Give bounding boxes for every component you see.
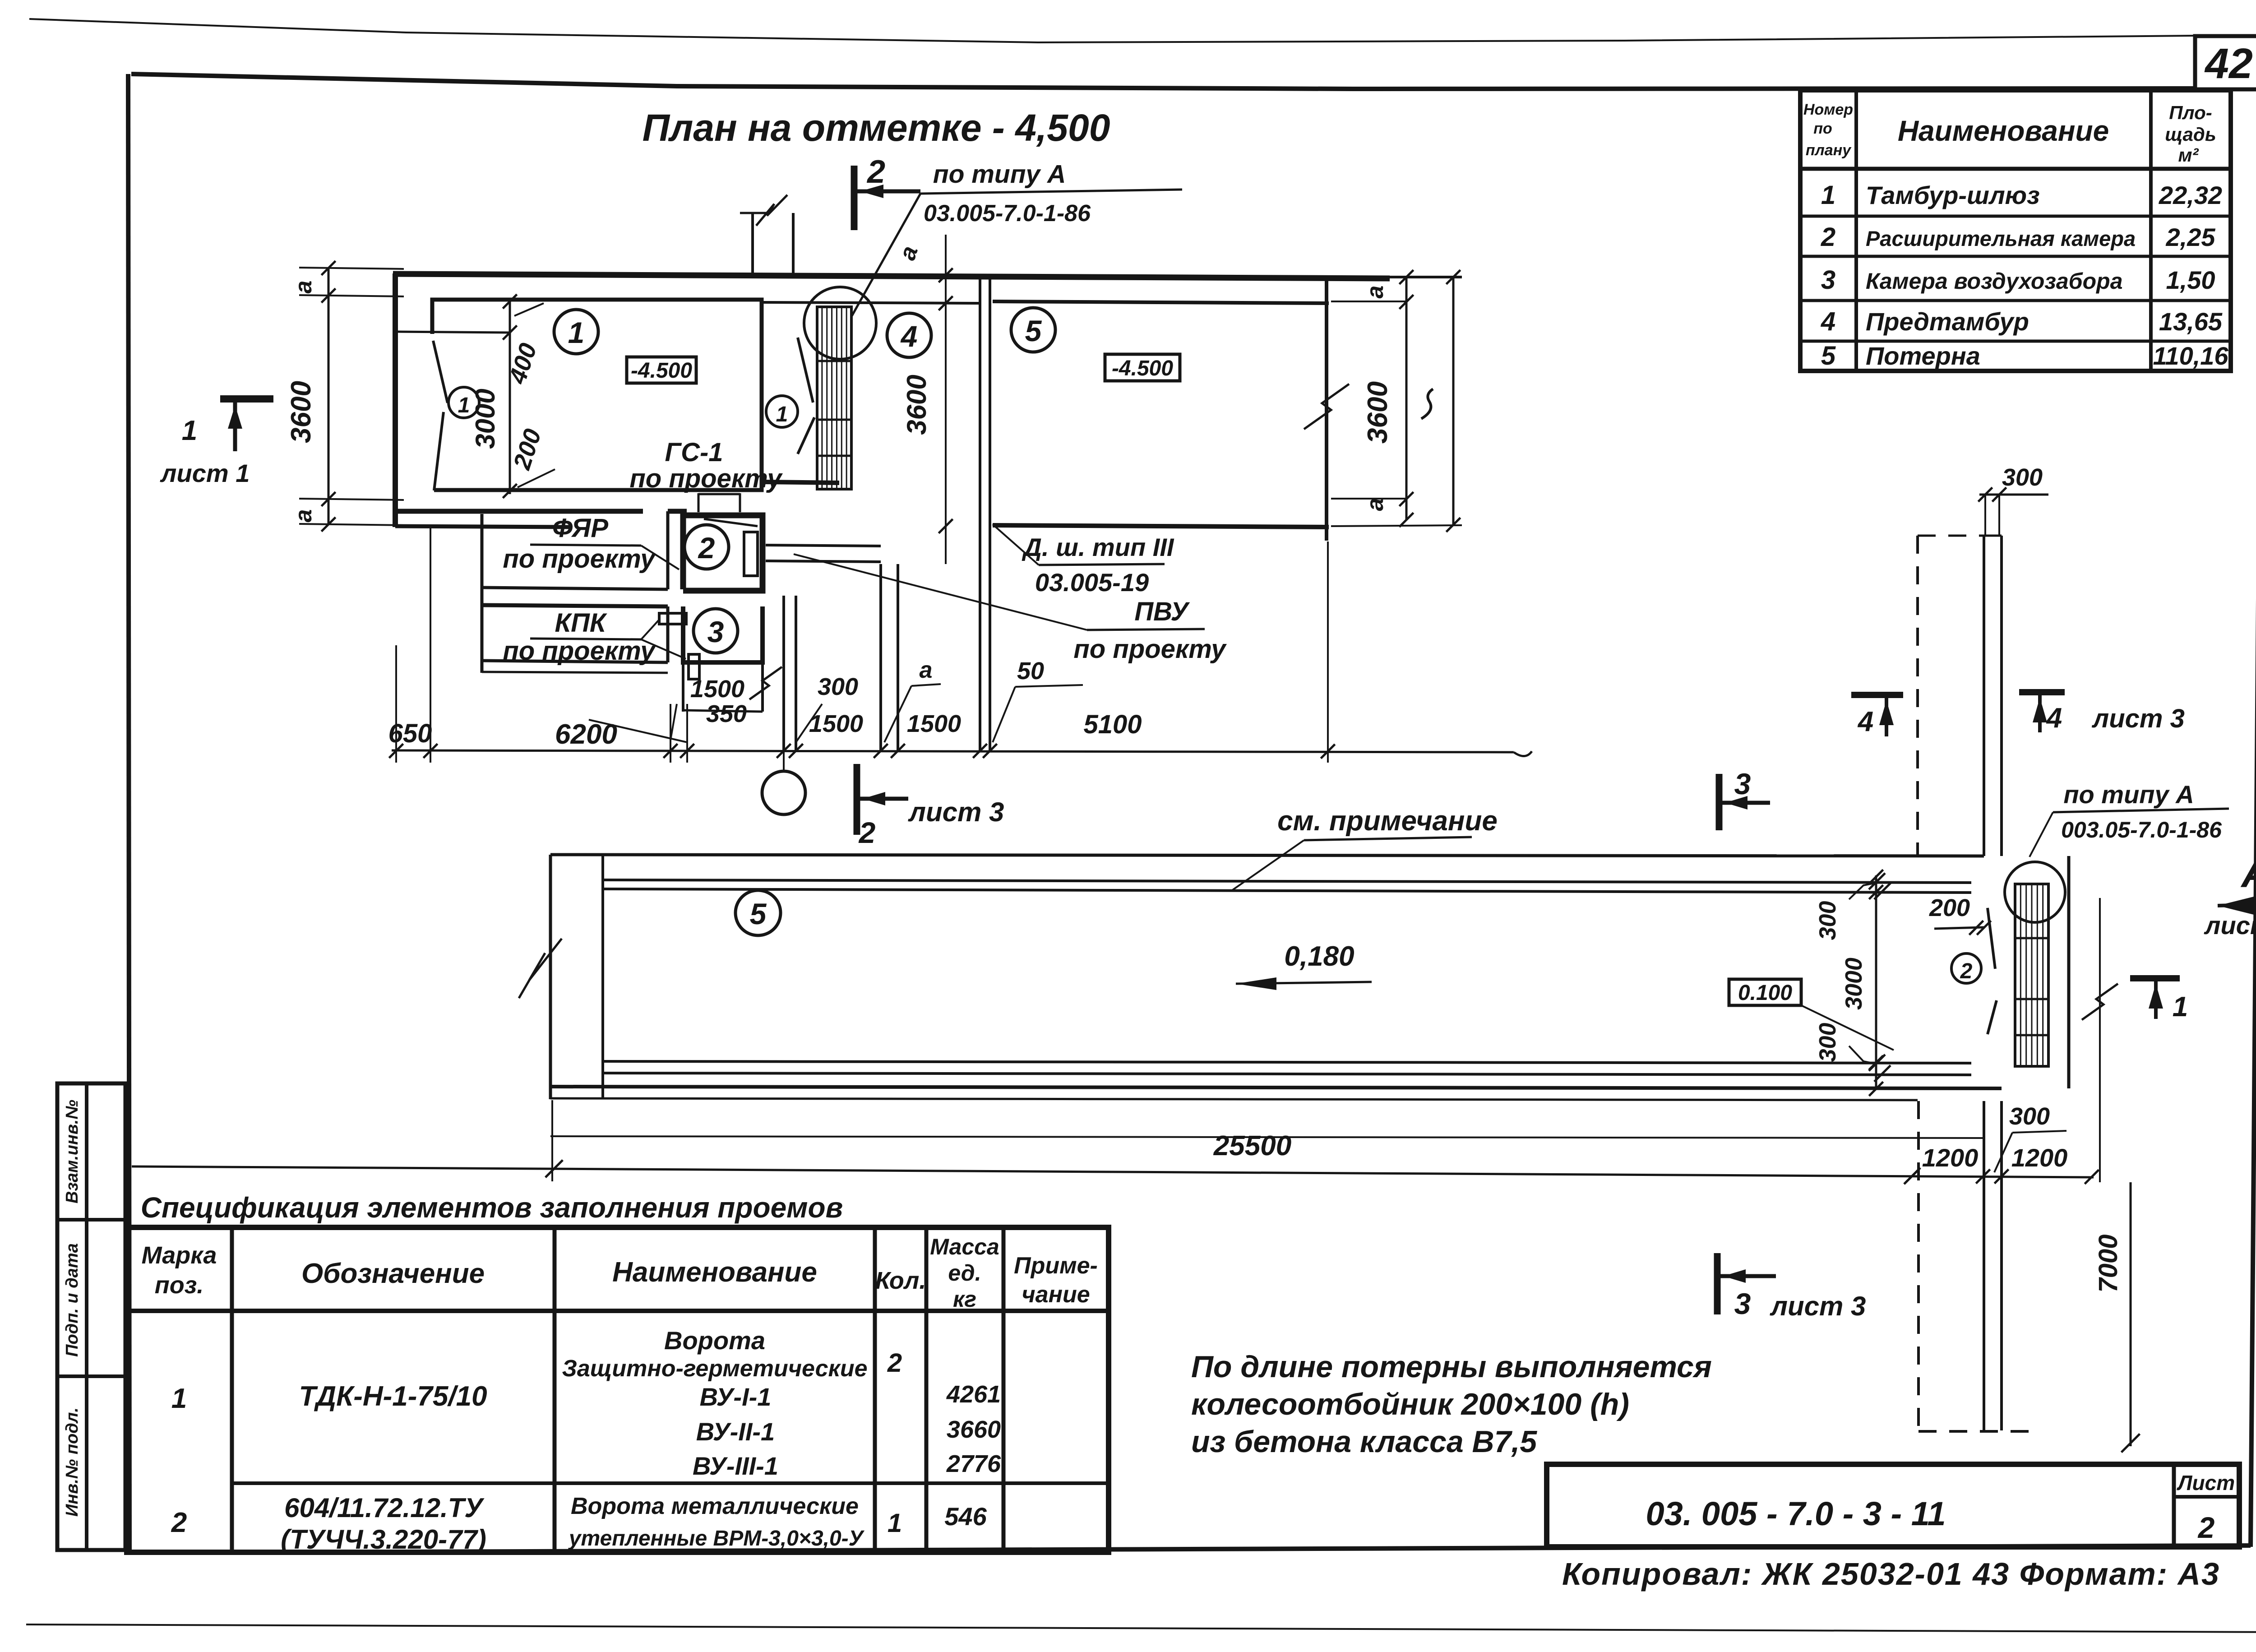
outer wall top [393,274,1390,278]
svg-text:350: 350 [706,700,747,727]
svg-text:03.005-19: 03.005-19 [1035,568,1149,597]
junction number 2 [1951,953,1981,983]
grille right hatched [2015,884,2048,1066]
right extension line with break [2099,898,2101,1182]
svg-text:плану: плану [1806,142,1852,159]
svg-text:604/11.72.12.ТУ: 604/11.72.12.ТУ [284,1493,485,1523]
spec table col lines [230,1227,234,1552]
svg-text:по: по [1813,120,1832,137]
svg-text:ГС-1: ГС-1 [665,438,723,467]
svg-text:3600: 3600 [1362,381,1393,444]
sheet number box 42 [2195,36,2256,89]
svg-text:Д. ш. тип III: Д. ш. тип III [1022,533,1174,561]
page bottom edge [26,1624,2256,1632]
section mark 3 flag [1716,774,1723,830]
svg-text:щадь: щадь [2165,124,2216,145]
svg-text:300: 300 [1815,901,1841,940]
page top edge [29,19,2196,42]
svg-text:Лист: Лист [2177,1471,2235,1495]
svg-text:Копировал: ЖК 25032-01 43 Ф: Копировал: ЖК 25032-01 43 Формат: А3 [1562,1556,2220,1592]
svg-text:546: 546 [944,1502,987,1531]
svg-text:Камера воздухозабора: Камера воздухозабора [1866,268,2123,294]
svg-text:м²: м² [2178,144,2199,166]
svg-text:3000: 3000 [1841,958,1867,1010]
dimension 300 top of passage [1979,494,2048,496]
room 1 door leaf 2 [434,412,444,491]
corridor top outer wall [550,855,1984,856]
section mark 1 left [220,395,273,403]
corridor left end wall [549,855,552,1099]
svg-text:Наименование: Наименование [1898,115,2109,147]
room 3 kamera vozdukhozabora [683,606,763,662]
svg-text:200: 200 [1929,894,1970,921]
svg-text:4: 4 [900,319,918,353]
frame right [2251,41,2256,1547]
svg-text:а: а [1362,498,1388,511]
duct from room 2 to joint [766,545,881,546]
svg-text:3660: 3660 [947,1416,1001,1443]
corridor bottom outer wall [550,1087,2002,1088]
lower passage wall right [2000,1101,2003,1430]
svg-text:1: 1 [182,415,197,446]
corridor number 5 [735,890,781,935]
svg-text:Масса: Масса [930,1234,999,1259]
svg-text:5: 5 [1821,341,1836,370]
svg-text:1200: 1200 [2011,1143,2068,1172]
title block border [1547,1464,2239,1547]
junction thin stubs up [1984,495,1986,535]
junction passage top cap [1984,535,2002,537]
room 3 number [693,609,738,653]
svg-text:ВУ-I-1: ВУ-I-1 [700,1383,772,1411]
wall band between FYaR KPK [482,605,668,606]
spec table row line [232,1481,1109,1485]
dimension 25500 line [132,1166,2094,1177]
grille callout circle [804,287,876,359]
svg-text:1500: 1500 [690,676,744,703]
corridor right stub ticks [1869,873,1885,889]
room 2 duct opening top [698,493,700,512]
svg-text:3: 3 [1821,265,1835,295]
grille chamber right wall [2067,856,2071,1088]
plan bottom dimension line [392,750,1514,752]
corridor left break [519,939,562,998]
room 5 right wall with break [1325,277,1328,541]
svg-text:Расширительная камера: Расширительная камера [1866,227,2136,250]
svg-text:ФЯР: ФЯР [552,514,608,543]
room 2 filter rect [744,532,758,576]
svg-text:чание: чание [1022,1282,1090,1308]
svg-text:Потерна: Потерна [1866,342,1980,370]
svg-text:Приме-: Приме- [1014,1253,1098,1279]
svg-text:КПК: КПК [555,608,607,638]
passage wall pair 2 [879,564,882,750]
leader to grille circle [852,194,920,316]
corridor top wall inner lines [603,880,1971,883]
corridor bottom inner lines [603,1061,1971,1063]
svg-text:3000: 3000 [470,389,500,449]
room 5 top wall [993,301,1329,303]
shaft break symbol [756,195,787,226]
svg-text:4261: 4261 [946,1381,1001,1408]
dimension line left (a,3600,a) [328,268,330,525]
premises table row line 1 [1800,215,2231,218]
svg-text:2: 2 [1821,222,1835,252]
node mark 1 big [554,310,598,354]
svg-text:5: 5 [750,897,767,930]
section mark 1 right [2130,975,2180,981]
level label -4.500 room5 [1105,354,1180,381]
svg-text:по проекту: по проекту [503,636,656,666]
room 5 number [1011,308,1055,352]
section mark 2 top flag [851,166,858,230]
svg-text:3600: 3600 [901,375,932,435]
svg-text:поз.: поз. [155,1272,204,1299]
svg-text:1500: 1500 [809,710,863,737]
room 4 number [887,313,931,357]
svg-text:по проекту: по проекту [1073,634,1227,664]
svg-text:см. примечание: см. примечание [1277,805,1498,837]
svg-text:4: 4 [1857,706,1873,737]
frame top [131,74,2196,89]
expansion joint lines [979,279,981,750]
room 1 door leaf 1 [433,341,448,403]
svg-text:03. 005 - 7.0 - 3 - 11: 03. 005 - 7.0 - 3 - 11 [1646,1495,1946,1532]
svg-text:Тамбур-шлюз: Тамбур-шлюз [1866,181,2040,209]
svg-text:Наименование: Наименование [612,1257,817,1288]
room 2 number [684,525,729,569]
svg-text:2: 2 [866,154,885,190]
extension line 2945 [1327,541,1329,763]
svg-text:300: 300 [2002,464,2043,491]
svg-text:7000: 7000 [2094,1234,2123,1292]
svg-text:(ТУЧЧ.3.220-77): (ТУЧЧ.3.220-77) [281,1524,486,1555]
grille room 4 hatched [817,307,851,489]
room 2 door slant [704,519,758,526]
level label 0.100 [1729,979,1801,1005]
section mark 3 list 3 [1714,1253,1721,1314]
svg-text:-4.500: -4.500 [1112,356,1173,380]
svg-text:Обозначение: Обозначение [301,1258,485,1289]
svg-text:4: 4 [2046,703,2062,734]
dimension right outer line [1452,277,1455,525]
junction passage wall right [2000,536,2003,856]
grille right callout circle [2005,862,2065,922]
KPK item rect 2 [689,654,699,679]
svg-text:1: 1 [458,393,470,417]
svg-text:Номер: Номер [1803,101,1853,118]
svg-text:колесоотбойник 200×100 (h): колесоотбойник 200×100 (h) [1191,1387,1629,1421]
svg-text:3: 3 [1734,1287,1751,1320]
dimension 300 3000 300 right [1875,875,1877,1090]
svg-text:650: 650 [388,719,432,748]
svg-text:4: 4 [1821,307,1835,336]
svg-text:110,16: 110,16 [2153,342,2228,370]
svg-text:Защитно-герметические: Защитно-герметические [562,1356,867,1382]
svg-text:1,50: 1,50 [2166,266,2215,294]
dashed hidden wall upper [1916,536,1919,857]
dimension 7000 [2130,1182,2132,1446]
premises table column line 2 [2149,90,2153,371]
spec table header line [127,1309,1109,1313]
svg-text:лист 3: лист 3 [2204,911,2256,939]
svg-text:а: а [291,509,317,523]
svg-text:3: 3 [707,615,724,648]
outer wall left [393,273,398,527]
svg-text:лист 3: лист 3 [2091,704,2185,733]
extension line 650 [430,527,431,763]
svg-text:1200: 1200 [1922,1143,1979,1172]
svg-text:2: 2 [858,816,876,849]
room 1 walls [432,300,762,490]
shaft walls [751,213,754,274]
svg-text:А: А [2241,851,2256,896]
premises table column line 1 [1854,90,1858,371]
svg-text:лист 1: лист 1 [160,459,250,487]
svg-text:а: а [920,657,933,683]
dimension right a 3600 a [1405,277,1408,520]
svg-text:42: 42 [2204,40,2253,88]
room 2 rasshiritelnaya kamera [683,515,763,591]
svg-text:0,180: 0,180 [1284,941,1354,972]
svg-text:0.100: 0.100 [1738,981,1792,1005]
svg-text:5: 5 [1025,314,1042,347]
extension lines 1486 1523 [670,704,671,763]
dimension a top mid [945,235,947,564]
room KPK walls [666,606,670,662]
svg-text:2,25: 2,25 [2166,223,2216,251]
svg-text:Ворота: Ворота [664,1326,765,1355]
svg-text:3: 3 [1734,767,1751,801]
svg-text:лист 3: лист 3 [1770,1291,1866,1321]
svg-text:50: 50 [1017,657,1044,685]
svg-text:Кол.: Кол. [875,1267,926,1294]
junction passage wall left [1983,536,1985,856]
svg-text:Спецификация элементов зап: Спецификация элементов заполнения проемо… [141,1191,843,1224]
manhole circle [762,771,805,814]
room FYaR walls [481,514,484,673]
svg-text:1: 1 [776,403,788,426]
svg-text:003.05-7.0-1-86: 003.05-7.0-1-86 [2061,817,2222,842]
frame bottom [128,1546,2251,1553]
grille door slants [798,338,813,403]
svg-text:по проекту: по проекту [503,544,656,574]
svg-text:2: 2 [2197,1511,2215,1544]
svg-text:2: 2 [887,1348,902,1378]
svg-text:1: 1 [568,316,585,349]
svg-text:Взам.инв.№: Взам.инв.№ [63,1100,82,1203]
svg-text:1: 1 [2173,991,2188,1023]
svg-text:ВУ-II-1: ВУ-II-1 [696,1417,775,1446]
node mark 1 right [766,396,798,427]
lower dashed bottom [1919,1430,2030,1433]
premises table header line [1800,167,2231,171]
spec table outer border [127,1227,1109,1552]
svg-text:Инв.№ подл.: Инв.№ подл. [63,1407,82,1517]
svg-text:ед.: ед. [948,1260,981,1286]
node mark 1 small [448,387,479,418]
svg-text:1: 1 [888,1509,902,1538]
corridor bottom thin line [550,1098,1918,1100]
svg-text:1: 1 [171,1383,187,1414]
svg-text:из бетона класса В7,5: из бетона класса В7,5 [1191,1425,1537,1459]
corridor lower edge line [550,1136,1984,1138]
svg-text:утепленные ВРМ-3,0×3,0-У: утепленные ВРМ-3,0×3,0-У [568,1527,865,1550]
svg-text:ВУ-III-1: ВУ-III-1 [693,1452,778,1480]
dimension 3000 line [509,300,511,494]
frame left [128,74,129,1553]
room 5 bottom wall [993,525,1329,527]
svg-text:Марка: Марка [142,1242,217,1269]
svg-text:25500: 25500 [1213,1130,1291,1161]
outer wall below room 1 [393,509,643,514]
outer wall top extension thin [1390,277,1462,278]
squiggle l [1421,389,1433,419]
svg-text:Ворота металлические: Ворота металлические [571,1493,859,1519]
room below 3 stub [682,662,684,712]
svg-text:а: а [291,281,317,294]
extension left for 25500 [551,1100,553,1181]
svg-text:по типу А: по типу А [933,160,1066,189]
premises table row line 2 [1800,255,2231,258]
svg-text:по проекту: по проекту [629,464,783,493]
junction door slants [1988,908,1995,969]
svg-text:ПВУ: ПВУ [1134,597,1190,626]
section mark 2 list 3 [854,764,860,835]
premises table border [1800,90,2231,371]
svg-text:2: 2 [171,1507,187,1538]
svg-text:План на отметке - 4,500: План на отметке - 4,500 [643,106,1110,149]
svg-text:2: 2 [698,531,715,565]
svg-text:300: 300 [818,673,858,700]
room 1 left niche line [398,332,510,333]
section mark 4 right list 3 [2019,689,2065,695]
svg-text:а: а [1362,286,1388,299]
svg-text:3600: 3600 [286,381,317,443]
section mark 4 left [1851,692,1903,698]
svg-text:-4.500: -4.500 [631,359,692,383]
room 4 top inner line [763,302,980,303]
svg-text:по типу А: по типу А [2063,780,2194,809]
svg-text:Предтамбур: Предтамбур [1866,307,2029,336]
premises table row line 4 [1800,340,2231,343]
room 4 bottom wall segment [763,482,839,483]
svg-text:По длине потерны выполняется: По длине потерны выполняется [1191,1350,1712,1384]
svg-text:кг: кг [953,1286,976,1312]
svg-text:300: 300 [1815,1023,1841,1062]
stamp column boxes [57,1083,125,1550]
svg-text:5100: 5100 [1083,710,1142,739]
svg-text:лист 3: лист 3 [908,797,1004,827]
svg-text:2776: 2776 [946,1450,1001,1477]
svg-text:300: 300 [2009,1103,2050,1130]
svg-text:Подп. и дата: Подп. и дата [63,1243,82,1357]
title block list box [2172,1464,2176,1547]
svg-text:Пло-: Пло- [2169,102,2212,123]
svg-text:1: 1 [1821,180,1835,210]
svg-text:22,32: 22,32 [2159,181,2222,209]
svg-text:13,65: 13,65 [2159,307,2223,336]
lower dashed wall [1917,1101,1920,1431]
svg-text:1500: 1500 [907,710,961,737]
passage wall pair 1 [782,596,785,750]
svg-text:ТДК-Н-1-75/10: ТДК-Н-1-75/10 [299,1381,487,1412]
KPK item rect 1 [659,613,686,624]
line below KPK [482,672,668,673]
dimension line 1200 1200 ticks [1905,1169,1919,1183]
premises table row line 3 [1800,299,2231,302]
svg-text:2: 2 [1960,959,1973,983]
svg-text:03.005-7.0-1-86: 03.005-7.0-1-86 [924,200,1091,227]
lower passage wall left [1983,1101,1985,1430]
level label -4.500 room1 [627,357,696,383]
